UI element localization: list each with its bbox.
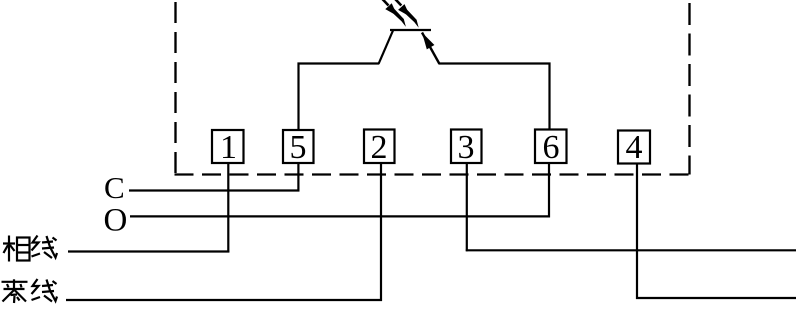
- terminal 5 box: [283, 130, 314, 163]
- svg-text:6: 6: [543, 129, 560, 166]
- wire from terminal 5 up to lamp symbol: [299, 64, 380, 130]
- phase output wire from terminal 3 to right edge: [466, 249, 796, 251]
- terminal 4 box: [618, 131, 650, 164]
- meter boundary bottom dashed edge: [175, 173, 691, 175]
- lamp left slanted leg: [379, 31, 394, 65]
- terminal 6 box: [535, 130, 567, 164]
- terminal 3 box: [451, 130, 482, 164]
- lightning arrow 2: [393, 0, 418, 28]
- terminal 4 lead wire down: [636, 164, 638, 299]
- lightning arrow 1: [381, 0, 406, 27]
- meter boundary left dashed edge: [174, 2, 176, 175]
- wire from 相线 label to terminal 1 lead: [68, 250, 229, 252]
- terminal 6 lead wire down: [548, 164, 550, 217]
- terminal 1 box: [212, 130, 244, 163]
- terminal 3 lead wire down: [466, 164, 468, 251]
- lamp top bar: [390, 29, 431, 31]
- terminal 1 lead wire down: [227, 164, 229, 253]
- terminal 2 lead wire down: [380, 164, 382, 301]
- label 零线 (neutral wire), hand-drawn strokes: [2, 279, 58, 303]
- svg-text:C: C: [104, 170, 125, 205]
- svg-text:4: 4: [626, 129, 643, 166]
- svg-text:1: 1: [220, 129, 237, 166]
- wire from 零线 label to terminal 2 lead: [66, 299, 382, 301]
- svg-text:O: O: [104, 203, 128, 239]
- wire from C to terminal 5 lead: [129, 189, 299, 191]
- wire from O to terminal 6 lead: [130, 215, 550, 217]
- neutral output wire from terminal 4 to right edge: [636, 297, 796, 299]
- svg-text:2: 2: [371, 129, 388, 166]
- wire from lamp symbol down to terminal 6: [439, 64, 550, 130]
- meter boundary right dashed edge: [688, 3, 690, 175]
- svg-text:5: 5: [290, 129, 307, 166]
- label 相线 (phase wire), hand-drawn strokes: [3, 236, 57, 262]
- lamp right slanted leg (arrow shaft): [422, 33, 440, 65]
- arrowhead pointing up-left at bar: [422, 33, 434, 50]
- terminal 5 lead wire down: [297, 164, 299, 192]
- terminal 2 box: [364, 130, 395, 164]
- svg-text:3: 3: [458, 129, 475, 166]
